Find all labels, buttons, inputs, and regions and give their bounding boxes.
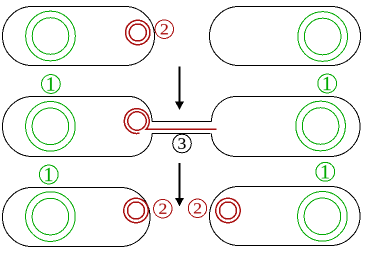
row1 left chromosome (green double circle) [26,11,76,61]
label 1 (row1 left) [42,75,61,94]
row1 right chromosome [298,12,348,62]
conjugation tube walls [152,122,212,134]
label 1 (row1 right) [318,74,337,93]
row3 right cell [210,187,361,246]
row3 left cell [3,188,151,247]
row1 right recipient cell [210,7,361,66]
label 1 (row2 right) [316,162,335,181]
arrow 2 [176,163,183,205]
label 1 (row2 left) [39,165,58,184]
row2 left donor cell (with pilus opening) [3,97,153,157]
row3 right plasmid [216,198,240,222]
row1 plasmid (red double circle) [126,20,150,44]
row3 left chromosome [26,192,76,242]
label 2 (row3 left) [154,200,172,218]
row3 left plasmid [124,198,148,222]
arrow 1 [176,67,183,110]
row3 right chromosome [298,192,348,242]
row2 right recipient cell (with pilus opening) [212,97,361,157]
row1 left donor cell [3,7,155,66]
label 2 (row1) [155,20,173,38]
label 2 (row3 right) [188,199,206,217]
label 3 [173,134,192,153]
row2 right chromosome [296,101,346,151]
row2 left chromosome [26,102,76,152]
transferring plasmid (red circle with strand through pilus) [124,109,216,134]
